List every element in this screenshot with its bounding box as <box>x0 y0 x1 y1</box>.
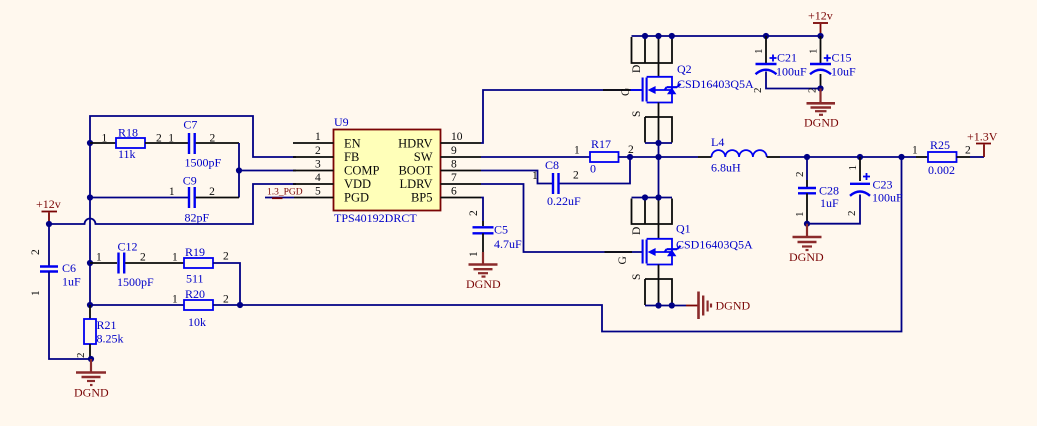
svg-text:R18: R18 <box>118 126 138 140</box>
resistor R17 <box>590 152 619 162</box>
wire C8 pin2 to SW node <box>560 157 631 184</box>
wire R17 pin2 to SW node <box>619 156 659 158</box>
node drain pad b <box>655 33 661 39</box>
node +12v <box>46 221 52 227</box>
svg-text:1: 1 <box>912 145 918 157</box>
svg-text:6.8uH: 6.8uH <box>711 161 741 175</box>
svg-text:100uF: 100uF <box>872 191 903 205</box>
Q1 drain pads <box>632 199 673 225</box>
svg-text:+1.3V: +1.3V <box>967 130 998 144</box>
ground DGND under C5 <box>482 252 484 264</box>
svg-text:DGND: DGND <box>804 116 839 130</box>
svg-text:2: 2 <box>223 251 229 263</box>
node C9 left <box>87 194 93 200</box>
resistor R25 <box>916 156 928 158</box>
svg-text:VDD: VDD <box>344 177 371 191</box>
node C15/C21 gnd <box>817 85 823 91</box>
svg-text:8.25k: 8.25k <box>97 332 124 346</box>
Q1 source pads <box>645 279 672 305</box>
svg-text:1: 1 <box>794 212 806 218</box>
op-amp controller U9 TPS40192DRCT <box>334 130 441 211</box>
svg-text:2: 2 <box>140 252 146 264</box>
wire HDRV to Q2 gate <box>481 90 643 143</box>
pin 5 PGD <box>265 197 294 199</box>
node C15 top <box>817 33 823 39</box>
svg-text:C23: C23 <box>873 178 893 192</box>
svg-text:6: 6 <box>451 186 457 198</box>
svg-text:C8: C8 <box>545 158 559 172</box>
wire C21 bottom <box>766 72 821 89</box>
wire C28 bottom <box>806 193 808 223</box>
node R19/R20 <box>237 302 243 308</box>
wire +12v down to C6 <box>48 224 50 266</box>
svg-text:1500pF: 1500pF <box>185 156 222 170</box>
svg-text:1: 1 <box>847 165 859 171</box>
svg-text:R19: R19 <box>185 245 205 259</box>
node SW column <box>655 154 661 160</box>
wire C12 pin1 <box>90 262 117 264</box>
wire C23 bottom <box>807 195 860 224</box>
wire C7/C9 right vertical <box>238 143 240 198</box>
svg-text:8: 8 <box>451 159 457 171</box>
node Q1 drain pad a <box>642 194 648 200</box>
wire Q1 source bottom <box>645 305 686 307</box>
svg-text:2: 2 <box>75 353 87 359</box>
wire Q2 drain <box>658 63 660 77</box>
capacitor C5 <box>473 227 494 233</box>
pin 2 FB <box>293 156 334 158</box>
svg-text:4: 4 <box>315 172 321 184</box>
svg-text:HDRV: HDRV <box>398 137 432 151</box>
svg-text:SW: SW <box>414 150 433 164</box>
svg-text:1.3_PGD: 1.3_PGD <box>267 188 303 198</box>
svg-text:2: 2 <box>846 211 858 217</box>
svg-text:LDRV: LDRV <box>399 177 432 191</box>
svg-text:COMP: COMP <box>344 164 379 178</box>
svg-text:82pF: 82pF <box>185 211 210 225</box>
wire COMP to U9 pin3 <box>239 170 296 172</box>
svg-text:11k: 11k <box>118 147 136 161</box>
capacitor C15 <box>820 36 822 63</box>
pin 9 SW <box>441 156 482 158</box>
svg-text:R21: R21 <box>97 318 117 332</box>
capacitor C12 <box>119 253 125 274</box>
node drain pad a <box>642 33 648 39</box>
svg-text:L4: L4 <box>711 135 724 149</box>
svg-text:CSD16403Q5A: CSD16403Q5A <box>677 77 754 91</box>
svg-text:+12v: +12v <box>36 197 61 211</box>
svg-text:1: 1 <box>30 290 42 296</box>
svg-text:1: 1 <box>172 294 178 306</box>
svg-text:D: D <box>631 65 643 73</box>
wire Q2 source <box>658 103 660 118</box>
node source pad <box>655 140 661 146</box>
svg-text:S: S <box>631 111 643 117</box>
svg-text:DGND: DGND <box>466 277 501 291</box>
pin 8 BOOT <box>441 170 482 172</box>
svg-text:2: 2 <box>807 88 819 94</box>
svg-text:2: 2 <box>209 186 215 198</box>
resistor R21 <box>89 305 91 319</box>
wire R21 pin2 <box>89 344 91 359</box>
ground DGND under C28 <box>806 224 808 237</box>
svg-text:2: 2 <box>315 145 321 157</box>
node ground left <box>88 356 94 362</box>
svg-text:1: 1 <box>168 133 174 145</box>
svg-text:5: 5 <box>315 186 321 198</box>
wire source to SW <box>658 143 660 157</box>
svg-text:0: 0 <box>590 162 596 176</box>
svg-text:Q2: Q2 <box>677 62 692 76</box>
capacitor C7 <box>189 133 195 154</box>
node COMP junction <box>236 167 242 173</box>
svg-text:0.22uF: 0.22uF <box>547 194 581 208</box>
svg-text:2: 2 <box>468 210 480 216</box>
Q2 source pads <box>645 117 672 143</box>
pin 3 COMP <box>293 170 334 172</box>
svg-text:1500pF: 1500pF <box>117 275 154 289</box>
svg-text:D: D <box>631 227 643 235</box>
wire C12-R19 <box>125 262 184 264</box>
svg-text:10uF: 10uF <box>831 65 856 79</box>
svg-text:C5: C5 <box>494 223 508 237</box>
svg-text:2: 2 <box>752 88 764 94</box>
wire Q1 source <box>658 265 660 280</box>
svg-text:C6: C6 <box>62 261 76 275</box>
node C12 left <box>87 260 93 266</box>
svg-text:C21: C21 <box>777 51 797 65</box>
node gnd C28/C23 <box>804 221 810 227</box>
wire SW rail <box>481 156 590 158</box>
power +1.3V <box>983 145 985 158</box>
svg-text:G: G <box>620 88 632 96</box>
svg-text:U9: U9 <box>334 115 349 129</box>
svg-text:2: 2 <box>573 170 579 182</box>
svg-text:2: 2 <box>965 145 971 157</box>
svg-text:BP5: BP5 <box>411 191 433 205</box>
wire R19 pin2 down <box>213 263 240 305</box>
wire top loop FB <box>90 116 296 157</box>
svg-text:C15: C15 <box>832 51 852 65</box>
svg-text:+12v: +12v <box>808 9 833 23</box>
wire Q1 drain <box>658 224 660 239</box>
node R18/C7 left <box>87 140 93 146</box>
node R20 left <box>87 302 93 308</box>
svg-text:1: 1 <box>808 49 820 55</box>
capacitor C23 <box>859 157 861 181</box>
svg-text:BOOT: BOOT <box>398 164 432 178</box>
inductor L4 <box>712 150 767 157</box>
node feedback <box>898 154 904 160</box>
pin 6 BP5 <box>441 197 482 199</box>
capacitor C28 <box>806 157 808 180</box>
wire BOOT to C8 <box>481 171 552 184</box>
svg-text:1uF: 1uF <box>62 275 81 289</box>
svg-text:DGND: DGND <box>789 250 824 264</box>
power +12v top right <box>820 24 822 36</box>
wire C9 pin2 <box>196 197 239 199</box>
svg-text:2: 2 <box>30 249 42 255</box>
resistor R18 <box>116 138 145 148</box>
wire BP5 to C5 <box>481 198 483 222</box>
wire VDD route with hop <box>49 184 296 224</box>
ground DGND top right <box>819 89 821 104</box>
transistor Q1 <box>643 239 681 265</box>
Q2 drain pads <box>632 37 673 63</box>
node drain pad c <box>669 33 675 39</box>
wire left vertical bus <box>89 143 91 305</box>
wire R18-C7 <box>145 142 188 144</box>
capacitor C8 <box>553 173 559 194</box>
node Q1 source pad a <box>655 302 661 308</box>
svg-text:9: 9 <box>451 145 457 157</box>
wire R20 pin1 <box>90 304 184 306</box>
node R17/C8 <box>627 154 633 160</box>
svg-text:FB: FB <box>344 150 359 164</box>
svg-text:10k: 10k <box>188 315 206 329</box>
power +12v left <box>48 213 50 225</box>
pin 4 VDD <box>293 183 334 185</box>
wire SW to Q1 drain <box>658 157 660 198</box>
wire R18 pin1 <box>90 142 116 144</box>
wire C15 bottom <box>820 74 822 89</box>
svg-text:C12: C12 <box>118 240 138 254</box>
node Q1 drain pad b <box>655 194 661 200</box>
svg-text:1: 1 <box>753 49 765 55</box>
svg-text:R20: R20 <box>185 287 205 301</box>
wire C6 bottom <box>49 272 91 360</box>
wire +12v top rail <box>632 35 821 37</box>
node Q1 source pad b <box>669 302 675 308</box>
svg-text:100uF: 100uF <box>776 65 807 79</box>
node C28 top <box>804 154 810 160</box>
pin 1 EN <box>293 142 334 144</box>
svg-text:1: 1 <box>169 186 175 198</box>
node C21 top <box>763 33 769 39</box>
svg-text:1: 1 <box>102 133 108 145</box>
capacitor C9 <box>90 197 188 199</box>
svg-text:7: 7 <box>451 172 457 184</box>
svg-text:1: 1 <box>574 145 580 157</box>
svg-text:1: 1 <box>468 251 480 257</box>
svg-text:DGND: DGND <box>716 299 751 313</box>
wire C5 pin1 <box>482 233 484 252</box>
capacitor C21 <box>765 36 767 63</box>
pin 10 HDRV <box>441 142 482 144</box>
svg-text:1: 1 <box>315 131 321 143</box>
svg-text:Q1: Q1 <box>676 222 691 236</box>
svg-text:DGND: DGND <box>74 386 109 400</box>
svg-text:C7: C7 <box>183 118 197 132</box>
pin 7 LDRV <box>441 183 482 185</box>
svg-text:S: S <box>631 274 643 280</box>
ground DGND sideways <box>686 305 698 307</box>
resistor R20 <box>184 300 213 310</box>
svg-text:10: 10 <box>451 131 463 143</box>
svg-text:CSD16403Q5A: CSD16403Q5A <box>676 238 753 252</box>
wire LDRV to Q1 gate <box>481 184 643 252</box>
svg-text:4.7uF: 4.7uF <box>494 237 522 251</box>
wire R20 pin2 feedback <box>213 157 902 332</box>
svg-text:C9: C9 <box>183 173 197 187</box>
svg-text:PGD: PGD <box>344 191 369 205</box>
svg-text:R17: R17 <box>591 137 611 151</box>
wire SW to L4 <box>659 156 699 158</box>
capacitor C6 <box>40 267 58 272</box>
svg-text:1: 1 <box>172 252 178 264</box>
ground DGND left <box>90 359 92 372</box>
svg-text:1: 1 <box>96 252 102 264</box>
svg-text:0.002: 0.002 <box>928 163 955 177</box>
wire R25 pin2 <box>957 156 971 158</box>
svg-text:G: G <box>617 256 629 264</box>
svg-text:511: 511 <box>186 272 204 286</box>
svg-text:1: 1 <box>532 170 538 182</box>
svg-text:1uF: 1uF <box>820 196 839 210</box>
wire L4 to output <box>767 156 780 158</box>
wire C7 pin2 <box>196 142 239 144</box>
node C23 top <box>857 154 863 160</box>
resistor R19 <box>184 258 213 268</box>
svg-text:3: 3 <box>315 159 321 171</box>
svg-text:R25: R25 <box>930 138 950 152</box>
transistor Q2 <box>631 77 681 103</box>
svg-text:EN: EN <box>344 137 361 151</box>
wire source pads bottom <box>645 142 672 144</box>
svg-text:TPS40192DRCT: TPS40192DRCT <box>334 211 417 225</box>
svg-text:2: 2 <box>223 294 229 306</box>
svg-text:2: 2 <box>794 172 806 178</box>
